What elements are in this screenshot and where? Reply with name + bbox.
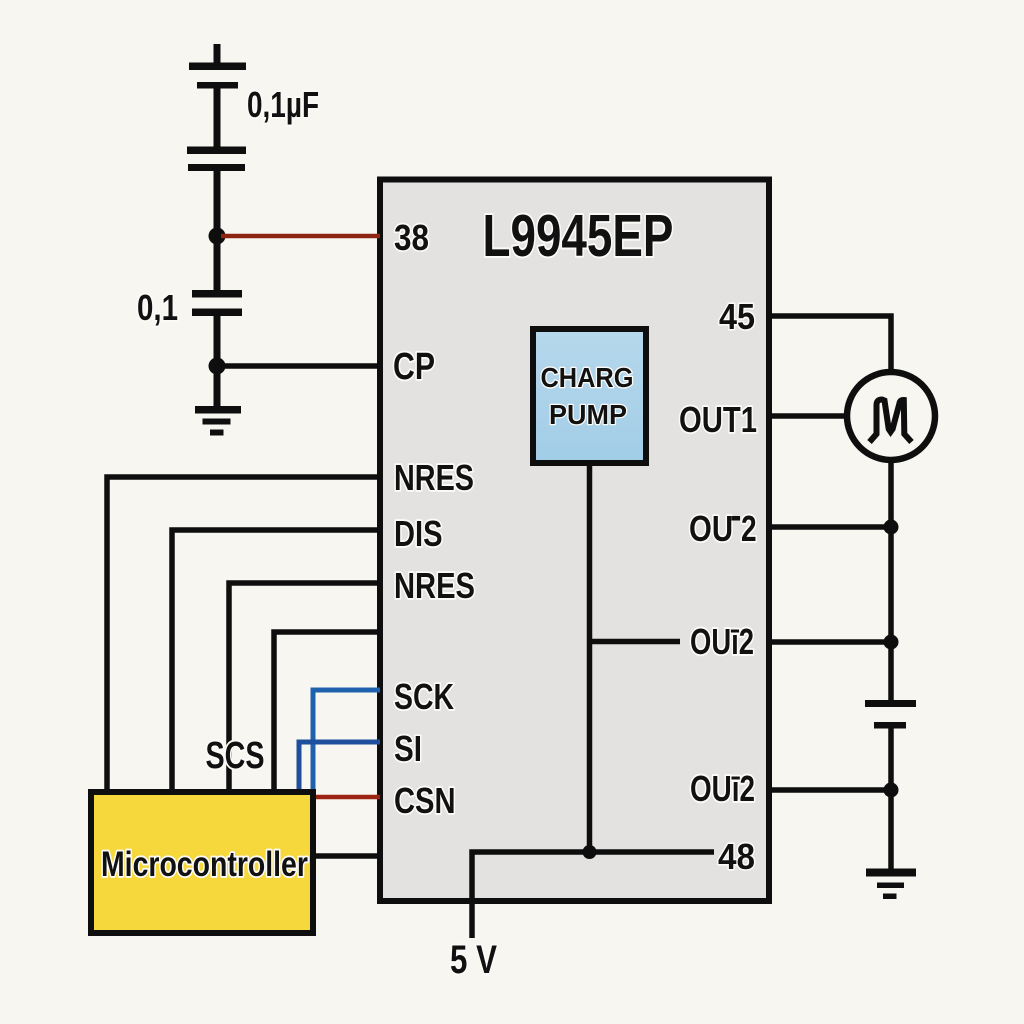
svg-text:CSN: CSN [394, 780, 455, 821]
node D junction [884, 635, 899, 650]
svg-text:0,1: 0,1 [137, 287, 178, 327]
svg-text:38: 38 [394, 218, 429, 258]
wire: pin OUT2 to node C [771, 524, 891, 530]
microcontroller block [91, 792, 313, 933]
label Microcontroller [101, 844, 308, 884]
wire: pin OUT1 to motor [771, 413, 847, 419]
pin label DIS [394, 513, 442, 554]
wire: MCU to NRES [107, 477, 380, 790]
wire: node C to node D [888, 527, 894, 642]
pin label OUT2 [689, 508, 757, 549]
node C junction [884, 520, 899, 535]
pin label SI [394, 728, 422, 768]
pin label 38 [394, 218, 429, 258]
svg-text:48: 48 [718, 838, 755, 877]
wire: pin 45 to motor [771, 316, 891, 371]
svg-text:Microcontroller: Microcontroller [101, 844, 308, 884]
wire: pin OUT2c to node E [771, 787, 891, 793]
pin label OUT2c [690, 769, 755, 809]
pin label 48 [718, 838, 755, 877]
svg-text:0,1µF: 0,1µF [247, 85, 319, 125]
pin label OUT2b [690, 621, 754, 662]
svg-text:OUT1: OUT1 [679, 399, 757, 440]
label CHARG [541, 362, 634, 393]
svg-text:NRES: NRES [394, 457, 474, 498]
wire: node A to pin 38 (dark red) [221, 234, 380, 239]
svg-text:PUMP: PUMP [549, 399, 627, 431]
wire: MCU to SI (blue) [299, 742, 380, 790]
wire: internal 5V rail to pin 48 [472, 852, 714, 938]
node A junction [209, 228, 226, 245]
svg-text:OUī2: OUī2 [690, 769, 755, 809]
svg-text:NRES: NRES [394, 565, 475, 606]
capacitor C2 plates [187, 147, 246, 172]
pin label OUT1 [679, 399, 757, 440]
wire: C2 down to node A and C3 [214, 171, 221, 290]
svg-text:CHARG: CHARG [541, 362, 634, 393]
charge pump block [533, 329, 646, 463]
wire: MCU to CSN (dark red) [316, 795, 380, 800]
wire: C3 to node B and ground [214, 316, 221, 407]
junction: charge pump / 5V rail [583, 845, 597, 859]
capacitor C4 plates [865, 700, 916, 729]
motor M1 [847, 372, 935, 460]
wire: MCU to IC lower pin [316, 853, 380, 859]
pin label CP [393, 346, 435, 388]
wire: charge pump output (internal vertical) [587, 466, 593, 852]
IC title L9945EP [483, 204, 674, 270]
wire: motor to node C [888, 460, 894, 527]
IC U1 L9945EP body [380, 180, 769, 902]
svg-text:2: 2 [741, 509, 757, 549]
pin label NRES2 [394, 565, 475, 606]
pin label CSN [394, 780, 455, 821]
wire: MCU to NRES2 [229, 583, 380, 790]
node E junction [884, 783, 899, 798]
svg-text:5 V: 5 V [450, 936, 497, 982]
wire: MCU to unlabeled pin [274, 632, 380, 790]
wire: node B to pin CP [221, 363, 380, 369]
node B junction [209, 358, 226, 375]
ground GND1 [195, 406, 241, 436]
svg-text:OUī2: OUī2 [690, 621, 754, 662]
svg-text:45: 45 [719, 297, 755, 337]
wire: MCU to DIS [172, 530, 380, 790]
wire: node E to ground GND2 [888, 790, 894, 869]
wire: MCU to SCK (blue) [313, 690, 380, 790]
capacitor C1 0,1uF top plates [189, 44, 246, 89]
wire: internal branch to OUT2 pin [590, 639, 681, 645]
svg-text:CP: CP [393, 346, 435, 388]
label C1 value 0,1µF [247, 85, 319, 125]
ground GND2 [866, 869, 916, 900]
svg-text:SCS: SCS [206, 735, 265, 777]
wire: C4 to node E [888, 729, 894, 791]
svg-text:SI: SI [394, 728, 422, 768]
label 5 V supply [450, 936, 497, 982]
pin label 45 [719, 297, 755, 337]
svg-text:OU: OU [689, 508, 733, 549]
capacitor C3 plates [192, 290, 242, 316]
pin label NRES [394, 457, 474, 498]
pin label SCK [394, 677, 455, 717]
wire: C1 to C2 [214, 89, 221, 148]
label SCS [206, 735, 265, 777]
svg-text:L9945EP: L9945EP [483, 204, 674, 270]
svg-text:DIS: DIS [394, 513, 442, 554]
label C3 value 0,1 [137, 287, 178, 327]
wire: pin OUT2b to node D [771, 639, 891, 645]
svg-text:SCK: SCK [394, 677, 455, 717]
wire: node D to capacitor C4 [888, 642, 894, 700]
label PUMP [549, 399, 627, 431]
